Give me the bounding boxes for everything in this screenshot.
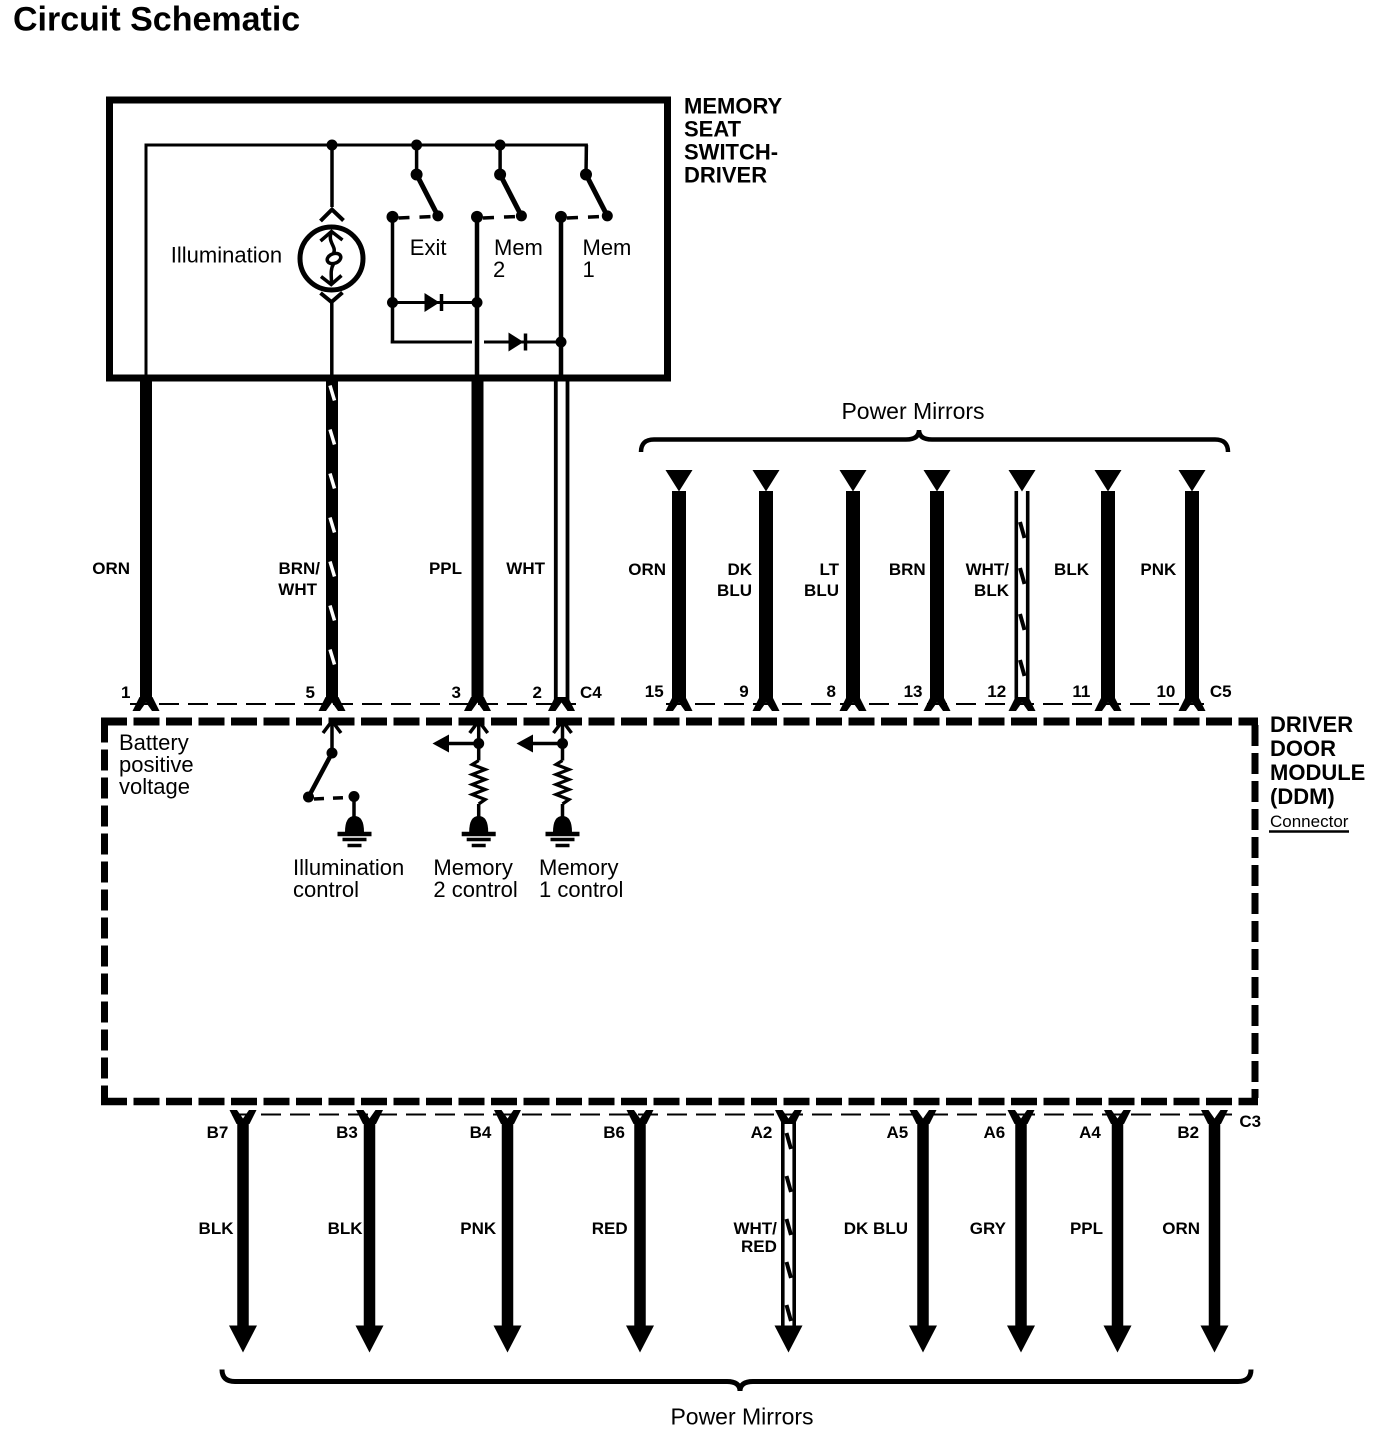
connector terminal pin 12 (C5)	[1009, 697, 1036, 711]
connector terminal pin B2 (C3)	[1201, 1110, 1228, 1124]
wire WHT//BLK (pin 12)	[1016, 491, 1027, 700]
arrow out of wire PNK (to power mirrors)	[494, 1326, 522, 1353]
DDM module dashed border right	[1252, 725, 1259, 1098]
arrow into wire BRN (to power mirrors)	[924, 470, 951, 492]
label BRN/WHT	[278, 559, 320, 599]
arrow into wire WHT//BLK (to power mirrors)	[1009, 470, 1036, 492]
switch Mem 2 SW	[471, 140, 527, 223]
svg-text:voltage: voltage	[119, 774, 190, 799]
wire PNK (pin 10)	[1185, 491, 1199, 699]
svg-text:BLU: BLU	[717, 581, 752, 600]
svg-text:control: control	[293, 877, 359, 902]
connector terminal pin 2 (C4)	[548, 697, 575, 711]
label MEMORY SEAT SWITCH-DRIVER	[684, 94, 783, 188]
connector terminal pin A5 (C3)	[910, 1110, 937, 1124]
svg-text:B4: B4	[470, 1123, 492, 1142]
ground (memory 1 control)	[546, 816, 580, 846]
arrow out of wire WHT//RED (to power mirrors)	[775, 1326, 803, 1353]
node: Exit/diode junction	[387, 297, 398, 308]
DDM module dashed border left	[101, 722, 108, 1099]
label Mem 2	[493, 235, 543, 282]
svg-text:WHT/: WHT/	[966, 560, 1010, 579]
svg-text:ORN: ORN	[92, 559, 130, 578]
arrow out of wire PPL (to power mirrors)	[1104, 1326, 1132, 1353]
svg-text:A6: A6	[983, 1123, 1005, 1142]
wire WHT (pin 2, white outlined)	[556, 381, 568, 700]
arrow out of wire DK BLU (to power mirrors)	[909, 1326, 937, 1353]
label Memory 1 control	[539, 855, 623, 902]
svg-text:10: 10	[1156, 682, 1175, 701]
svg-text:LT: LT	[819, 560, 839, 579]
svg-text:BRN/: BRN/	[278, 559, 320, 578]
connector terminal pin A2 (C3)	[775, 1110, 802, 1124]
node: diode row 1 / Mem2 junction	[472, 297, 483, 308]
arrow into wire DK/BLU (to power mirrors)	[753, 470, 780, 492]
label BRN	[889, 560, 926, 579]
label Mem 1	[583, 235, 632, 282]
connector terminal pin 1 (C4)	[133, 697, 160, 711]
svg-text:11: 11	[1072, 682, 1090, 701]
memory 1 control output arrow (left)	[517, 735, 569, 753]
connector C4 line	[130, 703, 576, 705]
svg-text:A4: A4	[1079, 1123, 1101, 1142]
arrow out of wire BLK (to power mirrors)	[229, 1326, 257, 1353]
memory 2 control input arrow	[470, 721, 488, 744]
svg-text:DOOR: DOOR	[1270, 736, 1336, 761]
label WHT/BLK	[966, 560, 1010, 600]
svg-text:ORN: ORN	[628, 560, 666, 579]
wire ORN (pin B2)	[1209, 1120, 1221, 1327]
wire PPL (pin 3)	[472, 378, 484, 699]
label Battery positive voltage	[119, 730, 194, 799]
connector terminal pin 5 (C4)	[319, 697, 346, 711]
connector C5 line	[666, 703, 1204, 705]
connector terminal pin B6 (C3)	[627, 1110, 654, 1124]
svg-text:2: 2	[533, 683, 542, 702]
svg-text:BLK: BLK	[974, 581, 1010, 600]
label DRIVER DOOR MODULE (DDM)	[1270, 712, 1365, 809]
connector terminal pin 15 (C5)	[666, 697, 693, 711]
wire: diode row 2 (gap at PPL crossover)	[391, 341, 561, 344]
wire WHT//RED (pin A2)	[783, 1120, 794, 1327]
connector terminal pin 9 (C5)	[753, 697, 780, 711]
connector terminal pin 10 (C5)	[1179, 697, 1206, 711]
wire: diode row 1	[393, 301, 478, 304]
diode D2	[509, 333, 526, 352]
label DK BLU	[717, 560, 753, 600]
svg-text:2: 2	[493, 257, 505, 282]
svg-text:PPL: PPL	[429, 559, 462, 578]
svg-text:BLK: BLK	[328, 1219, 364, 1238]
illumination control switch	[303, 748, 360, 818]
svg-text:13: 13	[904, 682, 923, 701]
svg-text:9: 9	[739, 682, 748, 701]
svg-text:B3: B3	[336, 1123, 358, 1142]
svg-text:Illumination: Illumination	[171, 243, 282, 268]
svg-text:Circuit Schematic: Circuit Schematic	[13, 1, 300, 39]
connector terminal pin A4 (C3)	[1104, 1110, 1131, 1124]
svg-text:RED: RED	[741, 1237, 777, 1256]
arrow into wire LT/BLU (to power mirrors)	[840, 470, 867, 492]
svg-text:C4: C4	[580, 683, 602, 702]
svg-text:12: 12	[987, 682, 1006, 701]
wire BLK (pin 11)	[1101, 491, 1115, 699]
memory 2 control output arrow (left)	[433, 735, 485, 753]
svg-text:Power Mirrors: Power Mirrors	[670, 1404, 813, 1430]
svg-text:3: 3	[452, 683, 461, 702]
svg-text:Exit: Exit	[410, 235, 447, 260]
svg-text:B7: B7	[207, 1123, 229, 1142]
svg-text:MEMORY: MEMORY	[684, 94, 783, 119]
svg-text:DK BLU: DK BLU	[844, 1219, 908, 1238]
lamp L1 illumination bulb	[300, 210, 363, 303]
svg-text:8: 8	[827, 682, 836, 701]
DDM module dashed border top	[101, 718, 1258, 726]
svg-text:Power Mirrors: Power Mirrors	[841, 398, 984, 424]
wire: Exit contact down	[391, 217, 395, 303]
svg-text:DK: DK	[727, 560, 752, 579]
arrow out of wire ORN (to power mirrors)	[1201, 1326, 1229, 1353]
connector terminal pin B4 (C3)	[494, 1110, 521, 1124]
switch Exit SW	[387, 140, 444, 223]
node: diode row 2 / Mem1 junction	[556, 337, 567, 348]
svg-text:15: 15	[645, 682, 664, 701]
wire: lamp bottom stem	[330, 302, 334, 375]
label DK BLU	[844, 1219, 908, 1238]
wire: internal supply bus	[146, 145, 586, 375]
label BLK	[199, 1219, 235, 1238]
label LT BLU	[804, 560, 840, 600]
svg-text:A5: A5	[886, 1123, 908, 1142]
brace over power mirror wires	[641, 430, 1228, 452]
resistor (memory 2 control pull-down)	[472, 744, 485, 818]
label PNK (mirror)	[1140, 560, 1177, 579]
wire BLK (pin B3)	[364, 1120, 376, 1327]
wire DK/BLU (pin 9)	[759, 491, 773, 699]
svg-text:BLU: BLU	[804, 581, 839, 600]
arrow into wire ORN (to power mirrors)	[666, 470, 693, 492]
svg-text:RED: RED	[592, 1219, 628, 1238]
label PNK	[460, 1219, 497, 1238]
svg-text:BLK: BLK	[199, 1219, 235, 1238]
wire BRN/WHT (pin 5)	[330, 378, 335, 699]
svg-text:PNK: PNK	[460, 1219, 497, 1238]
arrow out of wire BLK (to power mirrors)	[356, 1326, 384, 1353]
ground (memory 2 control)	[462, 816, 496, 846]
label ORN	[1162, 1219, 1200, 1238]
svg-text:PNK: PNK	[1140, 560, 1177, 579]
svg-text:BLK: BLK	[1054, 560, 1090, 579]
wire RED (pin B6)	[634, 1120, 646, 1327]
svg-text:GRY: GRY	[970, 1219, 1007, 1238]
wire ORN (pin 15)	[672, 491, 686, 699]
svg-text:PPL: PPL	[1070, 1219, 1103, 1238]
arrow out of wire GRY (to power mirrors)	[1007, 1326, 1035, 1353]
label BLK (mirror)	[1054, 560, 1090, 579]
connector terminal pin 13 (C5)	[924, 697, 951, 711]
connector terminal pin 3 (C4)	[464, 697, 491, 711]
svg-text:C3: C3	[1239, 1112, 1261, 1131]
svg-text:WHT: WHT	[506, 559, 545, 578]
connector terminal pin 11 (C5)	[1095, 697, 1122, 711]
svg-text:BRN: BRN	[889, 560, 926, 579]
connector terminal pin 8 (C5)	[840, 697, 867, 711]
memory seat switch-driver box	[110, 100, 668, 378]
wire: Mem1 contact down (WHT inside box)	[559, 217, 564, 375]
svg-text:1 control: 1 control	[539, 877, 623, 902]
arrow out of wire RED (to power mirrors)	[626, 1326, 654, 1353]
label Memory 2 control	[433, 855, 517, 902]
label GRY	[970, 1219, 1007, 1238]
brace under power mirror wires (bottom)	[222, 1370, 1251, 1392]
svg-text:Connector: Connector	[1270, 812, 1349, 831]
svg-text:5: 5	[306, 683, 315, 702]
diode D1	[425, 293, 442, 312]
svg-text:B2: B2	[1177, 1123, 1199, 1142]
connector terminal pin A6 (C3)	[1008, 1110, 1035, 1124]
arrow into wire PNK (to power mirrors)	[1179, 470, 1206, 492]
svg-text:A2: A2	[751, 1123, 773, 1142]
svg-text:SEAT: SEAT	[684, 117, 742, 142]
svg-text:2 control: 2 control	[433, 877, 517, 902]
label PPL	[1070, 1219, 1103, 1238]
svg-text:MODULE: MODULE	[1270, 760, 1365, 785]
label BLK	[328, 1219, 364, 1238]
wire BRN (pin 13)	[930, 491, 944, 699]
svg-text:DRIVER: DRIVER	[1270, 712, 1353, 737]
wire: Mem2 contact down (PPL inside box)	[475, 217, 480, 375]
switch Mem 1 SW	[555, 145, 613, 223]
label RED	[592, 1219, 628, 1238]
svg-text:SWITCH-: SWITCH-	[684, 140, 778, 165]
label WHT//RED	[733, 1219, 777, 1256]
svg-text:B6: B6	[603, 1123, 625, 1142]
connector terminal pin B3 (C3)	[356, 1110, 383, 1124]
DDM module dashed border bottom	[101, 1098, 1258, 1106]
memory 1 control input arrow	[554, 721, 572, 744]
svg-text:WHT: WHT	[278, 580, 317, 599]
svg-text:1: 1	[121, 683, 130, 702]
arrow into wire BLK (to power mirrors)	[1095, 470, 1122, 492]
connector C3 line	[232, 1114, 1232, 1116]
wire LT/BLU (pin 8)	[846, 491, 860, 699]
wire PPL (pin A4)	[1112, 1120, 1124, 1327]
svg-text:ORN: ORN	[1162, 1219, 1200, 1238]
wire: Exit elbow down	[391, 303, 395, 344]
connector terminal pin B7 (C3)	[230, 1110, 257, 1124]
label Illumination control	[293, 855, 404, 902]
svg-text:(DDM): (DDM)	[1270, 784, 1335, 809]
wire PNK (pin B4)	[502, 1120, 514, 1327]
svg-text:1: 1	[583, 257, 595, 282]
wire GRY (pin A6)	[1015, 1120, 1027, 1327]
node: bus junction dot for lamp	[327, 140, 338, 151]
wire: lamp top stem	[330, 145, 334, 207]
svg-text:C5: C5	[1210, 682, 1232, 701]
ground (illumination control)	[338, 816, 372, 846]
label ORN (mirror)	[628, 560, 666, 579]
wire DK BLU (pin A5)	[917, 1120, 929, 1327]
label Connector (underlined)	[1269, 812, 1349, 832]
wire BLK (pin B7)	[237, 1120, 249, 1327]
resistor (memory 1 control pull-down)	[556, 744, 569, 818]
illumination control input arrow	[323, 721, 341, 753]
svg-text:WHT/: WHT/	[733, 1219, 777, 1238]
svg-text:DRIVER: DRIVER	[684, 163, 767, 188]
wire ORN (pin 1)	[140, 378, 152, 699]
